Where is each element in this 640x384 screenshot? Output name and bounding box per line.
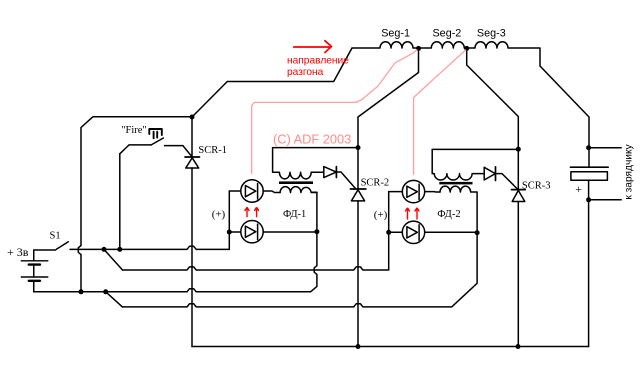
svg-text:(C) ADF 2003: (C) ADF 2003 xyxy=(273,132,351,147)
svg-text:ФД-1: ФД-1 xyxy=(283,209,306,220)
svg-text:Seg-3: Seg-3 xyxy=(477,27,506,39)
svg-text:S1: S1 xyxy=(50,230,61,241)
svg-text:к зарядчику: к зарядчику xyxy=(624,143,635,199)
svg-text:SCR-2: SCR-2 xyxy=(361,177,390,188)
svg-text:+ 3в: + 3в xyxy=(7,245,29,259)
svg-text:+: + xyxy=(575,182,582,196)
svg-text:SCR-3: SCR-3 xyxy=(522,180,551,191)
svg-text:SCR-1: SCR-1 xyxy=(198,145,227,156)
svg-text:ФД-2: ФД-2 xyxy=(437,209,460,220)
svg-text:Seg-1: Seg-1 xyxy=(381,27,410,39)
svg-text:Seg-2: Seg-2 xyxy=(432,27,461,39)
svg-text:(+): (+) xyxy=(374,209,388,221)
svg-text:"Fire": "Fire" xyxy=(121,125,147,136)
svg-text:направление: направление xyxy=(287,56,349,67)
svg-text:(+): (+) xyxy=(212,209,226,221)
svg-text:разгона: разгона xyxy=(287,67,324,78)
